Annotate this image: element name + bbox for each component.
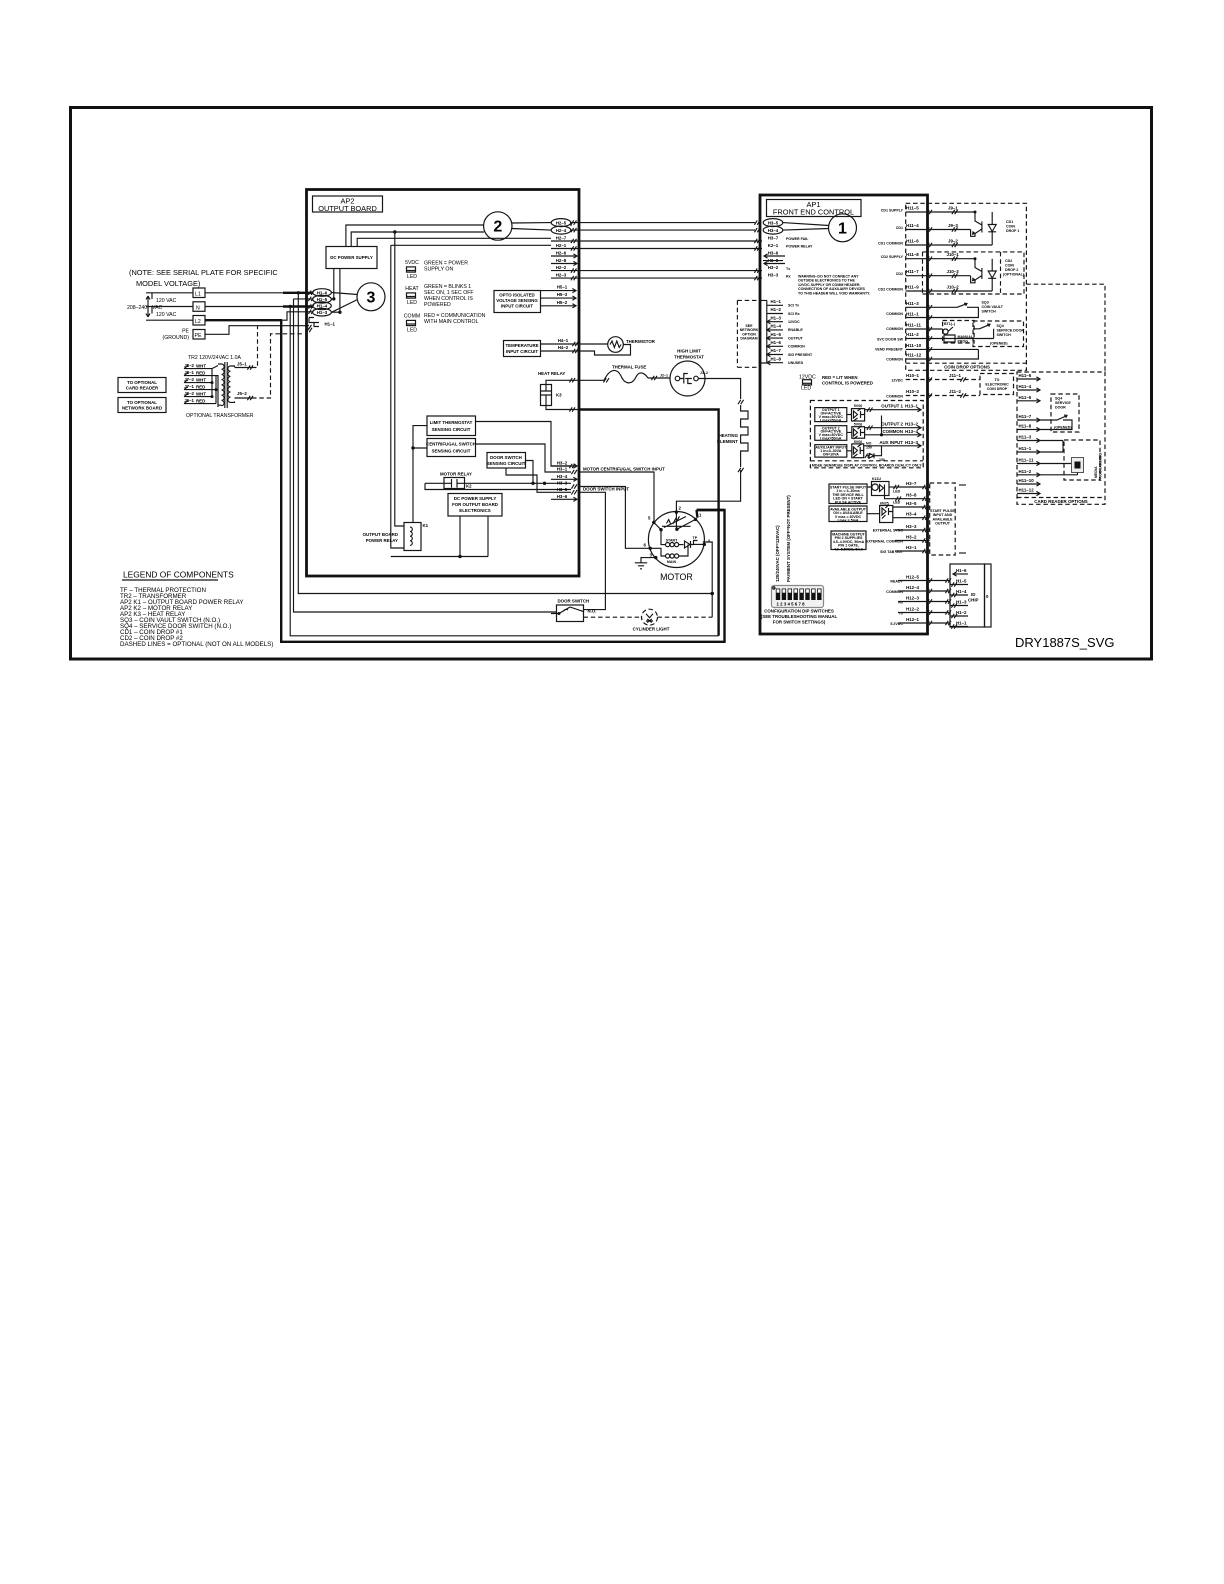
svg-text:ENABLE: ENABLE xyxy=(788,328,803,332)
svg-text:WHT: WHT xyxy=(196,377,206,382)
svg-text:K11U: K11U xyxy=(872,477,881,481)
wire top rail 1 xyxy=(346,225,484,247)
svg-text:H5–3: H5–3 xyxy=(557,292,568,297)
wire door box to relay line xyxy=(526,461,535,485)
net COMMON / connector H11-11 xyxy=(886,323,942,332)
svg-text:SENSING CIRCUIT: SENSING CIRCUIT xyxy=(432,449,471,454)
svg-text:(OPTIONAL): (OPTIONAL) xyxy=(1003,273,1025,277)
ID chip pin H1-1 xyxy=(950,621,968,629)
svg-text:OUTPUT: OUTPUT xyxy=(788,336,804,340)
connector H1-5 OUTPUT xyxy=(767,332,804,341)
transformer rating label TR2 xyxy=(188,355,242,361)
svg-text:Tx: Tx xyxy=(786,267,790,271)
terminal J9-1 xyxy=(184,398,212,404)
svg-text:CYLINDER LIGHT: CYLINDER LIGHT xyxy=(633,627,670,632)
svg-text:H1–6: H1–6 xyxy=(771,340,782,345)
card reader options dashed box xyxy=(1017,372,1105,504)
switch SQ4 option sub box xyxy=(1051,394,1079,432)
heat relay K3 xyxy=(538,371,565,406)
node 1 callout xyxy=(829,214,857,242)
motor main winding xyxy=(650,545,688,564)
CD2 optional dashed box xyxy=(923,252,1025,294)
wire top rail 2 xyxy=(351,232,484,247)
wire bus H2-2 to H3-2 Tx xyxy=(571,268,762,272)
svg-text:120 VAC: 120 VAC xyxy=(156,312,177,318)
wire H12-1 to chip xyxy=(949,623,951,627)
svg-text:J10–1: J10–1 xyxy=(947,252,960,257)
svg-text:H11–12: H11–12 xyxy=(906,353,922,358)
label OPTIONAL TRANSFORMER xyxy=(186,413,254,419)
svg-text:H3–5: H3–5 xyxy=(906,501,917,506)
svg-text:H2–1: H2–1 xyxy=(556,243,567,248)
svg-text:NETWORK BOARD: NETWORK BOARD xyxy=(122,406,162,411)
svg-text:H11–7: H11–7 xyxy=(1019,414,1032,419)
svg-text:J9–1: J9–1 xyxy=(948,206,958,211)
svg-text:208–240: 208–240 xyxy=(127,305,147,311)
svg-text:H11–12: H11–12 xyxy=(1019,488,1035,493)
legend items xyxy=(120,587,273,648)
svg-text:2: 2 xyxy=(679,506,682,511)
terminal J7-1 xyxy=(184,384,212,390)
svg-text:H2–4: H2–4 xyxy=(556,228,567,233)
svg-text:FOR OUTPUT BOARD: FOR OUTPUT BOARD xyxy=(452,502,498,507)
opto 6N25 xyxy=(867,502,893,523)
connector H11-8 option xyxy=(1017,424,1063,432)
svg-text:COIN DROP: COIN DROP xyxy=(987,387,1008,391)
connector H4-2 xyxy=(541,345,631,355)
svg-text:TO THIS HEADER WILL VOID WARRA: TO THIS HEADER WILL VOID WARRANTY. xyxy=(798,291,870,295)
svg-text:H3–2: H3–2 xyxy=(768,265,779,270)
svg-text:H11–1: H11–1 xyxy=(906,312,919,317)
svg-text:COIN: COIN xyxy=(1005,264,1014,268)
svg-text:POWERED: POWERED xyxy=(424,302,451,308)
svg-text:H3–7: H3–7 xyxy=(768,236,779,241)
svg-text:H3–3: H3–3 xyxy=(768,273,779,278)
connector H3-2 Tx xyxy=(768,265,790,271)
net CD2 COMMON / connector H11-9 xyxy=(878,285,992,294)
wire motor pin4 down xyxy=(703,542,714,617)
svg-text:COIN DROP OPTIONS: COIN DROP OPTIONS xyxy=(944,365,990,370)
transformer TR2 primary winding xyxy=(218,364,224,406)
svg-text:H1–8: H1–8 xyxy=(771,356,782,361)
svg-text:SENSING CIRCUIT: SENSING CIRCUIT xyxy=(432,427,471,432)
svg-text:H1–3: H1–3 xyxy=(317,310,328,315)
svg-text:LED: LED xyxy=(407,274,417,280)
wire relay to motor pin6 xyxy=(579,487,650,549)
svg-text:DIAGRAM: DIAGRAM xyxy=(740,337,757,341)
svg-text:FOR SWITCH SETTINGS): FOR SWITCH SETTINGS) xyxy=(773,620,826,625)
svg-text:H11–2: H11–2 xyxy=(906,332,919,337)
wire H3-4 to node 1 xyxy=(783,229,829,231)
motor relay K2 xyxy=(440,472,472,489)
svg-text:H2–7: H2–7 xyxy=(556,236,567,241)
net Rx / connector H12-3 xyxy=(898,596,951,605)
svg-text:4.0–5.5VDC, 5mA: 4.0–5.5VDC, 5mA xyxy=(834,547,864,551)
manual prog battery box xyxy=(943,321,975,344)
net SVC DOOR SW / connector H11-2 xyxy=(877,332,994,342)
motor pin 4 xyxy=(694,539,711,547)
LED COMM indicator xyxy=(404,314,420,334)
DIP switch levers 1-8 xyxy=(776,589,822,601)
svg-text:LIMIT THERMOSTAT: LIMIT THERMOSTAT xyxy=(430,420,473,425)
svg-text:COIN VAULT: COIN VAULT xyxy=(982,305,1004,309)
svg-text:COMMON: COMMON xyxy=(788,345,805,349)
wire RED bus xyxy=(212,376,218,407)
junction rail2 xyxy=(393,230,396,233)
wire H3-5 to node 1 xyxy=(783,223,829,226)
terminal J5-2 xyxy=(235,391,254,400)
limit thermostat sensing circuit box xyxy=(427,416,476,436)
svg-text:SWITCH: SWITCH xyxy=(982,310,997,314)
svg-text:CD1 COMMON: CD1 COMMON xyxy=(878,242,903,246)
available output spec box xyxy=(829,506,867,523)
svg-text:H4–1: H4–1 xyxy=(558,338,569,343)
wire top rail 4 xyxy=(391,244,551,246)
svg-text:K3: K3 xyxy=(556,393,562,398)
svg-text:COMMON: COMMON xyxy=(886,312,903,316)
svg-text:DROP 1: DROP 1 xyxy=(1006,229,1019,233)
connector K2-1 power relay xyxy=(768,243,813,249)
loop wire door feed xyxy=(294,299,558,612)
wire H12-3 to chip xyxy=(949,602,951,606)
connector H5-2 stub xyxy=(541,300,577,308)
svg-text:CD2: CD2 xyxy=(896,272,903,276)
wire common to H13-4 xyxy=(865,416,921,437)
svg-text:PE: PE xyxy=(195,333,202,339)
net READY / connector H12-5 xyxy=(890,575,951,584)
svg-text:INPUT CIRCUIT: INPUT CIRCUIT xyxy=(506,349,539,354)
machine output spec box xyxy=(831,531,866,551)
svg-text:PROG.: PROG. xyxy=(958,340,970,344)
transformer TR2 secondary winding xyxy=(228,366,235,402)
svg-text:TP: TP xyxy=(693,536,698,540)
svg-text:H11–9: H11–9 xyxy=(906,285,919,290)
motor centrifugal switch xyxy=(652,510,697,531)
wire bus H2-7 to H3-7 xyxy=(571,239,762,243)
svg-text:H1–6: H1–6 xyxy=(317,290,328,295)
svg-text:H11–11: H11–11 xyxy=(1019,458,1034,463)
svg-text:VAC: VAC xyxy=(152,305,163,311)
svg-text:POWER RELAY: POWER RELAY xyxy=(366,538,398,543)
svg-text:H1–1: H1–1 xyxy=(771,299,782,304)
svg-text:H11–1: H11–1 xyxy=(1019,446,1032,451)
connector H11-10 option stub xyxy=(1017,478,1040,486)
connector H11-6 option stub xyxy=(1017,395,1040,403)
svg-text:MOTOR CENTRIFUGAL SWITCH INPUT: MOTOR CENTRIFUGAL SWITCH INPUT xyxy=(583,467,665,472)
svg-text:5V06: 5V06 xyxy=(854,404,862,408)
svg-text:H1–1: H1–1 xyxy=(325,322,336,327)
wire output1 to H13-1 xyxy=(865,404,921,412)
connector H1-6 xyxy=(313,289,332,297)
svg-text:H2–6: H2–6 xyxy=(556,251,567,256)
LED 5VDC indicator xyxy=(405,260,419,280)
svg-text:H3–2: H3–2 xyxy=(906,534,917,539)
start pulse dashed box xyxy=(930,483,966,555)
svg-text:H3–4: H3–4 xyxy=(768,228,779,233)
connector H3-7 power fail xyxy=(768,236,809,242)
svg-text:5: 5 xyxy=(648,516,651,521)
junction N loop xyxy=(289,305,292,308)
ID chip pin H1-2 xyxy=(950,610,968,618)
svg-text:H3–6: H3–6 xyxy=(768,251,779,256)
svg-text:H3–5: H3–5 xyxy=(768,221,779,226)
connector H11-7 option xyxy=(1017,414,1051,422)
svg-text:LED: LED xyxy=(893,490,901,494)
svg-text:H12–5: H12–5 xyxy=(906,575,919,580)
svg-text:J10–2: J10–2 xyxy=(947,285,960,290)
svg-text:H3–1: H3–1 xyxy=(557,466,568,471)
svg-text:RED: RED xyxy=(196,398,205,403)
svg-text:N: N xyxy=(196,305,200,311)
wire bus H2-4 to H3-4 xyxy=(571,228,760,232)
svg-text:DRY1887S_SVG: DRY1887S_SVG xyxy=(1015,635,1115,650)
svg-text:J5–2: J5–2 xyxy=(237,391,247,396)
net CD2 SUPPLY / connector H11-8 xyxy=(881,252,975,261)
svg-text:H2–3: H2–3 xyxy=(556,273,567,278)
svg-text:CHIP: CHIP xyxy=(968,598,979,603)
svg-text:SERVICE DOOR: SERVICE DOOR xyxy=(997,329,1025,333)
connector H2-3 xyxy=(551,273,571,278)
dashed wire optional J5-2 xyxy=(252,334,302,398)
motor protector diode TP xyxy=(685,536,698,548)
svg-text:RED: RED xyxy=(196,384,205,389)
net 5.2VDC / connector H12-1 xyxy=(890,617,951,626)
svg-text:COIN: COIN xyxy=(1006,225,1015,229)
svg-text:ELEMENT: ELEMENT xyxy=(717,439,738,444)
svg-text:6: 6 xyxy=(644,543,647,548)
triac opto output 1 xyxy=(847,404,865,421)
svg-text:5VDC: 5VDC xyxy=(405,260,419,266)
svg-text:J5–1: J5–1 xyxy=(237,362,247,367)
svg-text:BT1(–): BT1(–) xyxy=(944,322,956,326)
net Tx / connector H12-2 xyxy=(898,607,951,616)
svg-text:TR2 120V/24VAC 1.0A: TR2 120V/24VAC 1.0A xyxy=(188,355,242,361)
svg-text:WHT: WHT xyxy=(196,363,206,368)
svg-text:Rx: Rx xyxy=(786,274,791,278)
wire H1-3 to DC supply xyxy=(332,311,342,314)
connector H1-6 COMMON xyxy=(767,340,805,349)
svg-text:H11–4: H11–4 xyxy=(906,223,919,228)
note text serial plate xyxy=(129,268,278,288)
wire L2 jog to H1-3 xyxy=(282,312,313,320)
svg-text:COMMON: COMMON xyxy=(886,358,903,362)
svg-text:HEAT: HEAT xyxy=(405,286,419,292)
wire L2 run (thick) xyxy=(205,319,282,321)
diode aux xyxy=(865,453,885,463)
wire top rail 3 xyxy=(357,238,551,246)
node 2 callout xyxy=(484,212,512,240)
vertical option label 120/240VAC xyxy=(775,525,780,582)
svg-text:DC POWER SUPPLY: DC POWER SUPPLY xyxy=(330,255,373,260)
wire bus H2-3 to H3-3 Rx xyxy=(571,276,762,280)
temperature input circuit box xyxy=(504,341,541,357)
svg-text:H3–3: H3–3 xyxy=(906,524,917,529)
wire node2 to H2-5 xyxy=(512,222,552,224)
svg-text:H1–4: H1–4 xyxy=(771,324,782,329)
wire H12-4 to chip xyxy=(949,591,951,595)
svg-text:H3–2: H3–2 xyxy=(557,460,568,465)
wire limit thermostat to H3-2 xyxy=(476,422,572,467)
net CD1 / connector H11-4 xyxy=(896,223,971,232)
svg-text:H11–5: H11–5 xyxy=(906,206,919,211)
svg-text:FRONT END CONTROL: FRONT END CONTROL xyxy=(773,208,854,217)
svg-text:J2–1: J2–1 xyxy=(660,374,668,378)
wire bottom rail xyxy=(391,556,488,558)
svg-text:H1–2: H1–2 xyxy=(771,307,782,312)
connector H11-12 option stub xyxy=(1017,488,1040,496)
media programming button xyxy=(1064,440,1103,481)
wire N feed xyxy=(146,306,193,308)
svg-text:SERVICE: SERVICE xyxy=(1055,401,1071,405)
svg-text:DOOR SWITCH INPUT: DOOR SWITCH INPUT xyxy=(583,486,629,491)
connector H2-1 xyxy=(551,243,571,248)
loop wire L2 outer (thick) xyxy=(281,320,724,642)
front end control AP1 outline xyxy=(760,195,928,634)
svg-text:I max=50mA: I max=50mA xyxy=(820,418,841,422)
svg-text:OPTO ISOLATED: OPTO ISOLATED xyxy=(499,293,534,298)
legend of components title xyxy=(122,570,234,581)
svg-text:HIGH LIMIT: HIGH LIMIT xyxy=(677,349,701,354)
svg-text:1: 1 xyxy=(838,221,847,238)
svg-text:H3–4: H3–4 xyxy=(906,512,917,517)
svg-text:2: 2 xyxy=(493,219,502,236)
connector H3-1 xyxy=(557,466,577,474)
svg-text:COMMON: COMMON xyxy=(886,327,903,331)
connector H2-4 xyxy=(551,226,571,234)
sheet border frame xyxy=(71,108,1152,660)
svg-text:COMM: COMM xyxy=(404,314,420,320)
wire door switch feed xyxy=(558,612,561,615)
net COMMON / connector H11-3 coin vault xyxy=(886,301,957,316)
drawing number label DRY1887S_SVG xyxy=(1015,635,1115,650)
wire DC supply output A xyxy=(333,269,335,299)
node 3 callout xyxy=(357,283,385,311)
connector H11-1 option xyxy=(1017,441,1063,455)
vertical option label PAYMENT SYSTEM xyxy=(786,495,791,582)
wire dc elec down B xyxy=(487,516,489,557)
connector H2-8 stub xyxy=(551,258,577,266)
wire L2 feed xyxy=(146,319,193,321)
svg-text:INPUT CIRCUIT: INPUT CIRCUIT xyxy=(501,304,534,309)
svg-text:H1–3: H1–3 xyxy=(771,315,782,320)
svg-text:LED: LED xyxy=(801,386,811,392)
svg-text:MOTOR RELAY: MOTOR RELAY xyxy=(440,472,472,477)
svg-text:SCI Tx: SCI Tx xyxy=(788,304,799,308)
wire motor pin1 thick return xyxy=(697,510,725,518)
wire down run B xyxy=(395,232,404,526)
triac opto output 2 xyxy=(847,423,865,439)
terminal J9-2 xyxy=(184,391,206,397)
svg-text:OUTPUT 2: OUTPUT 2 xyxy=(881,422,903,427)
svg-text:CD2: CD2 xyxy=(1005,259,1012,263)
output 2 spec box xyxy=(815,426,847,441)
wire DC supply output B xyxy=(339,269,341,313)
thermistor xyxy=(608,337,656,353)
connector H3-4 xyxy=(763,226,783,234)
terminal J8-2 xyxy=(184,363,206,369)
connector H1-1 xyxy=(306,318,335,333)
wire down run A xyxy=(391,245,404,548)
svg-text:PULSE ACTIVE: PULSE ACTIVE xyxy=(835,500,862,504)
wire motor centrifugal switch input xyxy=(579,467,665,523)
connector H2-5 xyxy=(551,219,571,227)
svg-text:VOLTAGE SENSING: VOLTAGE SENSING xyxy=(496,298,538,303)
svg-text:H11–8: H11–8 xyxy=(906,252,919,257)
wire node2 to H2-4 xyxy=(512,229,552,231)
transformer TR2 core xyxy=(225,362,227,408)
connector H1-2 SCI Rx xyxy=(767,307,800,316)
net 12VDC / connector H10-1 xyxy=(891,373,980,383)
svg-text:(OPENED): (OPENED) xyxy=(990,342,1008,346)
svg-text:TO OPTIONAL: TO OPTIONAL xyxy=(127,400,157,405)
net CD1 SUPPLY / connector H11-5 xyxy=(881,206,975,215)
see network option diagram box xyxy=(737,300,760,367)
svg-text:H1–5: H1–5 xyxy=(771,332,782,337)
svg-text:H3–3: H3–3 xyxy=(557,481,568,486)
switch SQ4 service door xyxy=(973,321,1024,347)
motor pin 3 ground lead xyxy=(641,553,658,563)
svg-text:CD1: CD1 xyxy=(1006,220,1013,224)
svg-text:H3–8: H3–8 xyxy=(906,493,917,498)
dc power supply output board electronics box xyxy=(448,494,502,517)
net label 120 VAC upper xyxy=(156,298,177,304)
svg-text:LED: LED xyxy=(893,501,901,505)
svg-text:H13–2: H13–2 xyxy=(905,422,918,427)
svg-text:THERMISTOR: THERMISTOR xyxy=(626,339,656,344)
svg-text:H1–5: H1–5 xyxy=(956,579,967,584)
svg-text:H10–2: H10–2 xyxy=(906,389,919,394)
wire thermistor return xyxy=(623,345,630,348)
wire N to H1-4 (thick) xyxy=(205,306,313,308)
svg-text:3: 3 xyxy=(367,290,376,307)
svg-text:SQ4: SQ4 xyxy=(1055,397,1062,401)
svg-text:L1: L1 xyxy=(195,292,201,298)
wire external sync H3-3 xyxy=(873,524,930,533)
wire WHT bus xyxy=(206,366,218,399)
connector marks AP2 left edge xyxy=(306,291,314,330)
svg-text:H11–3: H11–3 xyxy=(1019,435,1032,440)
wire available output H3-5 xyxy=(893,501,930,509)
svg-text:POWER FAIL: POWER FAIL xyxy=(786,237,809,241)
svg-text:THERMOSTAT: THERMOSTAT xyxy=(674,355,704,360)
svg-text:1: 1 xyxy=(699,513,702,518)
terminal J5-1 xyxy=(235,362,254,370)
LED 5VDC note xyxy=(424,261,468,273)
svg-text:START: START xyxy=(666,539,679,543)
wire aux input to H13-3 xyxy=(864,440,921,453)
svg-text:DOOR SWITCH: DOOR SWITCH xyxy=(490,455,522,460)
svg-text:0: 0 xyxy=(986,594,989,599)
svg-text:K1: K1 xyxy=(423,523,429,528)
svg-text:H12–3: H12–3 xyxy=(906,596,919,601)
svg-text:CD1 SUPPLY: CD1 SUPPLY xyxy=(881,209,904,213)
svg-text:TEMPERATURE: TEMPERATURE xyxy=(505,343,538,348)
svg-text:12VDC: 12VDC xyxy=(788,320,800,324)
door switch sensing circuit box xyxy=(487,453,526,469)
box TO OPTIONAL CARD READER xyxy=(118,378,166,393)
svg-text:H13–4: H13–4 xyxy=(905,429,918,434)
motor start winding xyxy=(661,530,684,547)
net COMMON / connector H12-4 xyxy=(886,585,951,594)
connector comb H1 network xyxy=(760,300,767,363)
LED HEAT indicator xyxy=(405,286,419,306)
svg-text:DROP 2: DROP 2 xyxy=(1005,268,1018,272)
connector H2-6 stub xyxy=(551,251,577,259)
svg-text:DC POWER SUPPLY: DC POWER SUPPLY xyxy=(454,496,497,501)
svg-text:H1–6: H1–6 xyxy=(956,568,967,573)
wire available output H3-4 xyxy=(893,512,930,520)
dashed wire optional J5-1 xyxy=(252,326,258,368)
